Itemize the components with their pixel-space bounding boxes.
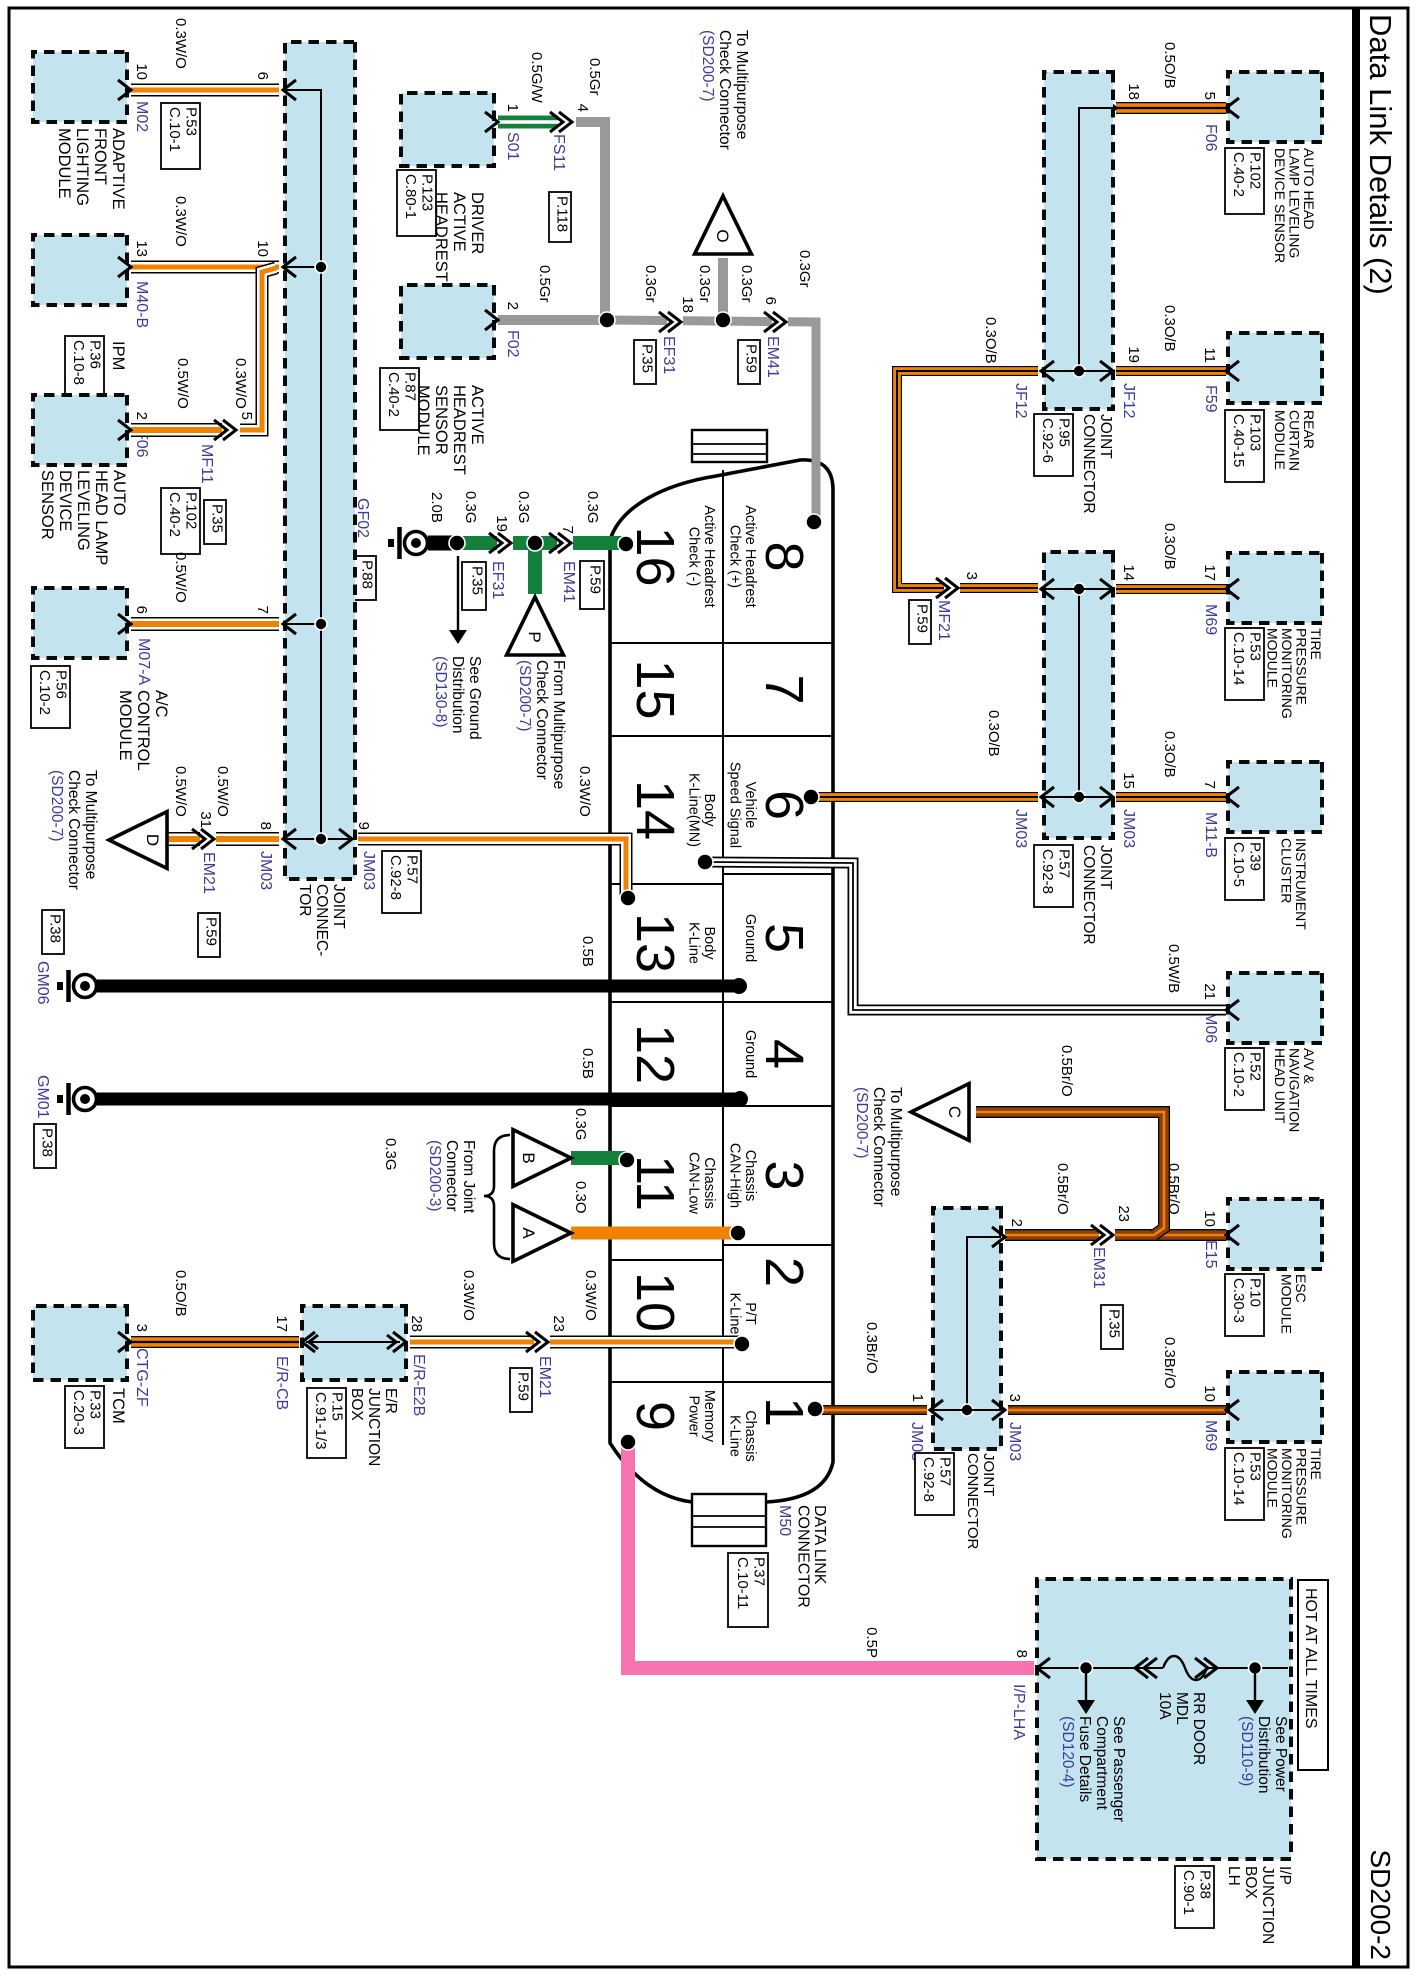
svg-text:0.3Br/O: 0.3Br/O: [863, 1322, 880, 1374]
svg-text:C.30-3: C.30-3: [1230, 1278, 1247, 1323]
chevron M69 pin 10: [1226, 1400, 1239, 1420]
connector page box P.37 C.10-11: [728, 1553, 768, 1627]
svg-text:P.35: P.35: [469, 566, 486, 595]
triangle D to multipurpose check connector: [109, 812, 167, 869]
svg-text:EM41: EM41: [560, 561, 577, 603]
svg-text:0.5W/O: 0.5W/O: [172, 766, 189, 817]
svg-text:P.59: P.59: [203, 917, 220, 946]
svg-text:C.10-8: C.10-8: [70, 340, 87, 385]
svg-text:12: 12: [625, 1024, 685, 1084]
svg-text:4: 4: [574, 104, 591, 112]
svg-text:EM21: EM21: [536, 1356, 553, 1398]
connector box P.35 gray: [634, 340, 656, 384]
svg-text:From Joint: From Joint: [460, 1140, 477, 1214]
svg-text:0.3Gr: 0.3Gr: [796, 250, 813, 288]
svg-text:7: 7: [754, 674, 814, 704]
wire 0.5W/O M07-A pin6 to JC pin7: [131, 617, 279, 631]
svg-text:F59: F59: [1202, 385, 1219, 413]
svg-text:D: D: [143, 834, 162, 846]
module REAR CURTAIN MODULE F59: [1228, 333, 1322, 403]
module TCM CTG-ZF: [33, 1306, 127, 1380]
svg-text:F06: F06: [1202, 124, 1219, 152]
chevron E/R internal bottom: [309, 1335, 318, 1349]
chevron JM03 pin 15: [1100, 787, 1113, 807]
svg-text:EM31: EM31: [1090, 1247, 1107, 1289]
I/P JUNCTION BOX LH box: [1037, 1579, 1291, 1859]
node pin 16: [618, 536, 634, 552]
wire 0.3Br/O JM03 pin3 to M69 pin10: [1008, 1405, 1226, 1415]
svg-text:EF31: EF31: [489, 561, 506, 599]
svg-text:15: 15: [1120, 772, 1137, 789]
svg-text:8: 8: [257, 822, 274, 830]
svg-text:P: P: [525, 631, 544, 642]
connector box P.35 green: [462, 562, 486, 610]
module INSTRUMENT CLUSTER M11-B: [1228, 762, 1322, 832]
svg-text:0.3O/B: 0.3O/B: [1161, 523, 1178, 570]
wire 0.3O/B M69 pin17 to JM03 pin14: [1116, 584, 1226, 594]
chevron M69 pin 17: [1226, 579, 1239, 599]
svg-text:HEAD UNIT: HEAD UNIT: [1272, 1048, 1288, 1124]
wire 0.3W/O MF11 to JC pin10 join: [240, 268, 276, 430]
svg-text:2: 2: [133, 412, 150, 420]
svg-text:P.102: P.102: [183, 492, 200, 529]
svg-text:MONITORING: MONITORING: [1279, 628, 1295, 719]
svg-text:P.38: P.38: [47, 914, 64, 943]
connector box P.53 C.10-14 for M69 lower: [1225, 1448, 1264, 1520]
svg-text:ACTIVE: ACTIVE: [468, 385, 486, 445]
module IPM M40-B: [33, 235, 127, 305]
svg-text:C.90-1: C.90-1: [1180, 1870, 1197, 1915]
svg-text:M06: M06: [1202, 1012, 1219, 1043]
svg-text:C.80-1: C.80-1: [402, 174, 419, 219]
chevron JM03 pin 13: [1041, 787, 1054, 807]
svg-text:3: 3: [754, 1160, 814, 1190]
svg-text:17: 17: [1201, 564, 1218, 581]
chevron JM03 pin 11: [1041, 579, 1054, 599]
chevron M02 pin 10: [118, 80, 131, 100]
chevron M11-B pin 7: [1226, 787, 1239, 807]
svg-text:BOX: BOX: [348, 1388, 365, 1421]
svg-text:Check (+): Check (+): [727, 525, 743, 588]
svg-text:0.3O/B: 0.3O/B: [985, 710, 1002, 757]
node pin 9: [620, 1434, 636, 1450]
svg-text:HEADREST: HEADREST: [450, 385, 468, 475]
node green junction: [527, 535, 543, 551]
JM03 top internal bus: [1078, 589, 1080, 797]
svg-text:REAR: REAR: [1301, 410, 1317, 449]
wire 0.3O/B M11-B pin7 to JM03 pin15: [1116, 792, 1226, 802]
node pin 14: [697, 854, 713, 870]
connector box P.118 for FS11: [549, 192, 571, 242]
svg-text:LIGHTING: LIGHTING: [73, 128, 91, 206]
svg-text:6: 6: [762, 297, 779, 305]
inline connector FS11: [558, 115, 574, 129]
wire 0.5W/O JC pin8 to triangle D via EM21: [166, 832, 279, 846]
svg-text:M69: M69: [1202, 1420, 1219, 1451]
chevron IPM pin 13: [118, 257, 131, 277]
svg-text:5: 5: [1201, 92, 1218, 100]
svg-text:SENSOR: SENSOR: [432, 385, 450, 455]
green stub to triangle P: [528, 543, 542, 594]
svg-text:C.91-1/3: C.91-1/3: [312, 1392, 329, 1450]
svg-text:(SD120-4): (SD120-4): [1059, 1716, 1076, 1788]
wire 0.5W/O F06 pin2 to MF11: [131, 423, 224, 437]
triangle A from joint connector: [513, 1205, 571, 1262]
svg-text:C.10-2: C.10-2: [36, 670, 53, 715]
svg-text:Compartment: Compartment: [1093, 1716, 1110, 1811]
E/R JUNCTION BOX: [302, 1306, 406, 1380]
module A/C CONTROL MODULE M07-A: [33, 588, 127, 658]
svg-text:C.10-1: C.10-1: [166, 107, 183, 152]
node pin 2: [734, 1336, 750, 1352]
svg-text:I/P-LHA: I/P-LHA: [1010, 1684, 1027, 1740]
chevron JC pin 9: [339, 829, 352, 849]
svg-text:1: 1: [504, 104, 521, 112]
I/P branch dot lower: [1080, 1662, 1093, 1675]
svg-text:JM03: JM03: [257, 851, 274, 890]
wire 0.3O/B JF12 pin20 to JM03 pin11 via MF21: [897, 371, 1038, 588]
svg-text:MODULE: MODULE: [1279, 1274, 1295, 1334]
chevron E/R-CB pin 17: [302, 1332, 315, 1352]
svg-text:K-Line(MN): K-Line(MN): [686, 773, 702, 847]
svg-text:P.59: P.59: [743, 344, 760, 373]
HOT AT ALL TIMES box: [1298, 1580, 1328, 1770]
svg-text:C.40-2: C.40-2: [166, 492, 183, 537]
ground GM06: [74, 975, 97, 998]
node pin 5: [731, 978, 747, 994]
chevron JM03 pin 3: [992, 1400, 1005, 1420]
svg-text:EF31: EF31: [660, 336, 677, 374]
svg-text:P.123: P.123: [419, 174, 436, 211]
wire 0.3W/O M02 pin10 to JC pin6: [131, 84, 279, 97]
inline connector EM21 D: [200, 832, 216, 846]
svg-text:14: 14: [1120, 564, 1137, 581]
svg-text:MODULE: MODULE: [1272, 410, 1288, 470]
svg-text:(SD200-7): (SD200-7): [48, 770, 65, 842]
I/P double chevron lower: [1135, 1658, 1148, 1678]
svg-text:To Multipurpose: To Multipurpose: [733, 30, 750, 139]
svg-text:Active Headrest: Active Headrest: [742, 505, 758, 607]
svg-text:Chassis: Chassis: [701, 1157, 717, 1209]
M50 left mounting tab: [692, 430, 767, 462]
data link connector M50 outline: [610, 460, 833, 1502]
svg-text:E/R-E2B: E/R-E2B: [410, 1354, 427, 1416]
svg-text:AUTO HEAD: AUTO HEAD: [1301, 148, 1317, 229]
triangle O to multipurpose check connector: [695, 196, 752, 254]
svg-text:C.92-6: C.92-6: [1039, 418, 1056, 463]
inline connector EF31 on gray bus: [667, 315, 683, 329]
svg-text:21: 21: [1201, 983, 1218, 1000]
svg-text:MODULE: MODULE: [1265, 628, 1281, 688]
chevron JF12 pin 18: [1103, 98, 1116, 118]
svg-text:0.5Br/O: 0.5Br/O: [1058, 1045, 1075, 1097]
module AUTO HEAD LAMP LEVELING DEVICE SENSOR F06: [1228, 72, 1322, 142]
chevron TCM pin 3: [118, 1332, 131, 1352]
chevron JF12 pin 20: [1041, 361, 1054, 381]
module AUTO HEAD LAMP LEVELING DEVICE SENSOR F06 bottom: [33, 395, 127, 465]
svg-text:Vehicle: Vehicle: [742, 782, 758, 829]
wire 0.5B M50 pin4 to GM01: [96, 1093, 740, 1106]
chevron S01 pin 1: [485, 112, 498, 132]
svg-text:3: 3: [133, 1324, 150, 1332]
node gray-O: [715, 312, 731, 328]
svg-text:0.3W/O: 0.3W/O: [576, 766, 593, 817]
module TIRE PRESSURE MONITORING MODULE M69 upper: [1228, 553, 1322, 623]
connector box P.52 C.10-2 for M06: [1225, 1048, 1264, 1110]
connector box P.87 C.40-2 for F02: [380, 368, 419, 430]
svg-text:Check (-): Check (-): [686, 527, 702, 587]
connector box P.53 C.10-14 for M69 upper: [1225, 628, 1264, 700]
svg-text:C.40-2: C.40-2: [1230, 152, 1247, 197]
svg-text:P.36: P.36: [87, 340, 104, 369]
M50 top row cell dividers: [723, 642, 833, 644]
svg-text:JM03: JM03: [360, 851, 377, 890]
svg-text:0.5W/B: 0.5W/B: [1165, 944, 1182, 993]
chevron F02 pin 2: [485, 310, 498, 330]
svg-text:P.15: P.15: [329, 1392, 346, 1421]
connector box P.38 GM01: [34, 1124, 56, 1168]
inline connector EF31 green: [497, 536, 513, 550]
svg-text:Connector: Connector: [443, 1140, 460, 1212]
svg-text:Memory: Memory: [701, 1390, 717, 1443]
module ESC MODULE E15: [1228, 1199, 1322, 1269]
svg-text:SENSOR: SENSOR: [38, 470, 56, 540]
svg-text:(SD130-8): (SD130-8): [432, 656, 449, 728]
wire 0.5O/B F06 pin5 to JF12 pin18: [1116, 102, 1226, 114]
svg-text:0.5O/B: 0.5O/B: [172, 1270, 189, 1317]
svg-text:JOINT: JOINT: [1097, 845, 1114, 890]
node pin 8: [806, 514, 822, 530]
svg-text:Distribution: Distribution: [449, 656, 466, 734]
chevron JC pin 10: [283, 257, 296, 277]
header separator line: [1352, 8, 1360, 1967]
svg-text:5: 5: [238, 412, 255, 420]
svg-text:LEVELING: LEVELING: [74, 470, 92, 551]
svg-text:TIRE: TIRE: [1308, 628, 1324, 660]
connector box P.123 C.80-1 for S01: [397, 170, 436, 236]
svg-text:Data Link Details (2): Data Link Details (2): [1363, 14, 1398, 295]
M50 row divider: [722, 470, 724, 1445]
svg-text:P.39: P.39: [1247, 842, 1264, 871]
svg-text:PRESSURE: PRESSURE: [1294, 1448, 1310, 1525]
module ADAPTIVE FRONT LIGHTING MODULE M02: [33, 52, 127, 122]
svg-text:2: 2: [754, 1257, 814, 1287]
svg-text:AUTO: AUTO: [110, 470, 128, 516]
svg-text:0.3W/O: 0.3W/O: [172, 18, 189, 69]
wire 0.5Gr F02 pin2 to junction: [498, 315, 609, 325]
svg-text:1: 1: [909, 1394, 926, 1402]
svg-text:14: 14: [625, 780, 685, 840]
svg-text:31: 31: [197, 811, 214, 828]
JM03 right internal bus: [967, 1237, 1001, 1410]
module A/V & NAVIGATION HEAD UNIT M06: [1228, 973, 1322, 1043]
node pin 3: [730, 1225, 746, 1241]
svg-text:Body: Body: [701, 926, 717, 960]
wire 0.3G triangle B to M50 pin11: [571, 1151, 626, 1165]
svg-text:8: 8: [1013, 1650, 1030, 1658]
chevron JM03 pin 14: [1100, 579, 1113, 599]
svg-text:0.3Gr: 0.3Gr: [696, 265, 713, 303]
inline connector MF21: [944, 581, 960, 595]
svg-text:MODULE: MODULE: [116, 690, 134, 761]
wire 0.3W/O JC pin9 to M50 pin13: [358, 839, 626, 896]
svg-text:2.0B: 2.0B: [428, 492, 445, 523]
svg-text:17: 17: [273, 1315, 290, 1332]
svg-text:7: 7: [1201, 781, 1218, 789]
svg-text:0.5B: 0.5B: [579, 936, 596, 967]
node gray junction: [599, 312, 615, 328]
svg-text:JUNCTION: JUNCTION: [365, 1388, 382, 1466]
svg-text:LH: LH: [1225, 1866, 1242, 1886]
wire 0.5P M50 pin9 to I/P-LHA pin8: [628, 1442, 1034, 1668]
connector box P.59 green: [580, 561, 604, 609]
svg-text:CONNECTOR: CONNECTOR: [795, 1505, 812, 1608]
chevron JC pin 6: [283, 80, 296, 100]
svg-text:C.40-15: C.40-15: [1230, 414, 1247, 467]
svg-text:DRIVER: DRIVER: [468, 192, 486, 254]
chevron F06 pin 5: [1226, 98, 1239, 118]
svg-text:O: O: [713, 229, 732, 242]
svg-text:3: 3: [963, 572, 980, 580]
connector box P.59 gray: [738, 340, 760, 384]
svg-text:HOT AT ALL TIMES: HOT AT ALL TIMES: [1302, 1588, 1319, 1729]
node pin 6: [803, 789, 819, 805]
svg-text:CAN-High: CAN-High: [727, 1143, 743, 1208]
svg-text:P.88: P.88: [359, 560, 376, 589]
svg-text:EM21: EM21: [200, 852, 217, 894]
svg-text:23: 23: [550, 1315, 567, 1332]
I/P double chevron upper: [1204, 1658, 1217, 1678]
wire 0.3Br/O JM03 pin1 to M50 pin1: [815, 1405, 927, 1415]
svg-text:Check Connector: Check Connector: [65, 770, 82, 890]
svg-text:E/R-CB: E/R-CB: [273, 1356, 290, 1410]
see ground distribution arrow: [457, 556, 459, 630]
svg-text:I/P: I/P: [1276, 1866, 1293, 1885]
node pin 4: [732, 1091, 748, 1107]
svg-text:Speed Signal: Speed Signal: [727, 762, 743, 848]
svg-text:Check Connector: Check Connector: [716, 30, 733, 150]
svg-text:JF12: JF12: [1120, 383, 1137, 419]
svg-text:P.56: P.56: [53, 670, 70, 699]
svg-text:0.3G: 0.3G: [584, 491, 601, 524]
svg-text:0.5G/W: 0.5G/W: [528, 52, 545, 104]
svg-text:P.118: P.118: [554, 196, 571, 232]
wire 0.5O/B TCM pin3 to E/R-CB pin17: [131, 1336, 299, 1348]
svg-text:C.10-2: C.10-2: [1230, 1052, 1247, 1097]
svg-text:0.3Br/O: 0.3Br/O: [1161, 1337, 1178, 1389]
svg-text:P.53: P.53: [183, 107, 200, 136]
svg-text:P.102: P.102: [1247, 152, 1264, 189]
connector box P.88: [354, 556, 376, 600]
wire 0.3G M50 pin16 down to ground GF02: [457, 536, 626, 550]
connector box P.102 C.40-2 bottom: [161, 488, 200, 554]
svg-text:10: 10: [133, 63, 150, 80]
svg-text:5: 5: [754, 923, 814, 953]
triangle C to multipurpose check connector: [976, 1112, 1164, 1235]
connector box P.57 C.92-8 right: [915, 1453, 954, 1515]
svg-text:0.3O/B: 0.3O/B: [1161, 731, 1178, 778]
svg-text:PRESSURE: PRESSURE: [1294, 628, 1310, 705]
svg-text:(SD200-7): (SD200-7): [853, 1087, 870, 1159]
svg-text:P.53: P.53: [1247, 632, 1264, 661]
svg-text:CONTROL: CONTROL: [134, 690, 152, 771]
svg-text:4: 4: [754, 1039, 814, 1069]
svg-text:DATA LINK: DATA LINK: [811, 1505, 828, 1585]
svg-text:GM01: GM01: [34, 1075, 51, 1119]
svg-text:K-Line: K-Line: [686, 922, 702, 964]
chevron JC pin 7: [283, 614, 296, 634]
svg-text:0.5O/B: 0.5O/B: [1161, 42, 1178, 89]
svg-text:JM03: JM03: [1120, 809, 1137, 848]
wire 0.5G/W S01 pin1 to FS11: [498, 116, 560, 129]
svg-text:P.57: P.57: [1056, 849, 1073, 878]
svg-text:DEVICE: DEVICE: [56, 470, 74, 531]
connector box P.33 C.20-3 for TCM: [65, 1386, 104, 1448]
module ACTIVE HEADREST SENSOR MODULE F02: [401, 285, 494, 358]
svg-text:0.3W/O: 0.3W/O: [232, 358, 249, 409]
node black junction: [449, 535, 465, 551]
svg-text:10A: 10A: [1156, 1692, 1173, 1720]
connector box P.53 C.10-1 for M02: [161, 103, 200, 169]
connector box P.95 C.92-6: [1034, 414, 1073, 476]
svg-text:Ground: Ground: [742, 1030, 758, 1078]
svg-text:From Multipurpose: From Multipurpose: [550, 660, 567, 789]
svg-text:C.10-5: C.10-5: [1230, 842, 1247, 887]
wire 0.5Br/O E15 pin10 to JM03 pin2 via EM31: [1005, 1229, 1226, 1241]
svg-text:JOINT: JOINT: [980, 1453, 997, 1496]
connector box P.39 C.10-5 for M11-B: [1225, 838, 1264, 900]
svg-text:Chassis: Chassis: [742, 1150, 758, 1202]
svg-text:JM03: JM03: [1006, 1422, 1023, 1461]
svg-text:0.5B: 0.5B: [579, 1048, 596, 1079]
svg-text:MONITORING: MONITORING: [1279, 1448, 1295, 1539]
svg-text:8: 8: [754, 541, 814, 571]
svg-text:P.57: P.57: [937, 1457, 954, 1486]
svg-text:M50: M50: [776, 1505, 793, 1536]
svg-text:To Multipurpose: To Multipurpose: [82, 770, 99, 879]
chevron M07-A pin 6: [118, 614, 131, 634]
svg-text:JOINT: JOINT: [1097, 414, 1114, 459]
svg-text:P.59: P.59: [914, 604, 931, 633]
ground GF02: [405, 532, 428, 555]
connector box P.36 C.10-8 for IPM: [65, 336, 104, 398]
chevron E15 pin 10: [1226, 1225, 1239, 1245]
joint connector JF12 box: [1044, 72, 1113, 409]
svg-text:M11-B: M11-B: [1202, 812, 1219, 858]
svg-text:JF12: JF12: [1012, 383, 1029, 419]
svg-text:C.92-8: C.92-8: [387, 855, 404, 900]
connector box P.56 C.10-2 for M07-A: [31, 666, 70, 728]
svg-text:MODULE: MODULE: [55, 128, 73, 199]
svg-text:(SD200-7): (SD200-7): [516, 660, 533, 732]
wire 0.3Gr bus to M50 pin8: [607, 320, 816, 522]
svg-text:(SD200-7): (SD200-7): [699, 30, 716, 102]
svg-text:0.3Gr: 0.3Gr: [642, 265, 659, 303]
svg-text:LAMP LEVELING: LAMP LEVELING: [1287, 148, 1303, 258]
chevron E/R-E2B pin 28: [393, 1332, 406, 1352]
svg-text:Chassis: Chassis: [742, 1410, 758, 1462]
svg-text:0.5Gr: 0.5Gr: [586, 58, 603, 96]
node pin 13: [620, 890, 636, 906]
svg-text:0.3G: 0.3G: [462, 491, 479, 524]
svg-text:0.5Gr: 0.5Gr: [536, 265, 553, 303]
joint connector long box JM03: [285, 42, 355, 879]
svg-text:P.103: P.103: [1247, 414, 1264, 451]
svg-text:TIRE: TIRE: [1308, 1448, 1324, 1480]
wire 0.3O triangle A to M50 pin3: [571, 1227, 736, 1240]
svg-text:K-Line: K-Line: [727, 1415, 743, 1457]
svg-text:P.35: P.35: [209, 504, 226, 533]
